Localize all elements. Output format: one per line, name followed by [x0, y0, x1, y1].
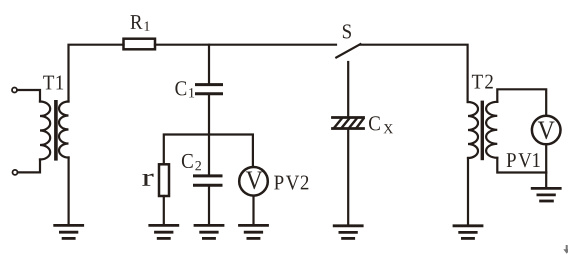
ground (below Cx) [334, 226, 362, 239]
wire: bus [164, 135, 253, 167]
wire: T1 primary bottom to bottom terminal [18, 160, 40, 173]
label S [343, 24, 351, 38]
ground (below r) [150, 225, 178, 238]
scroll arrow artifact [563, 245, 568, 254]
wire: R1 to switch S [155, 44, 336, 46]
wire: r to ground [163, 196, 165, 225]
capacitor C2 [195, 176, 222, 185]
voltmeter letter V (PV2) [246, 171, 263, 189]
transformer T1 core [54, 102, 58, 159]
transformer T2 secondary winding [486, 102, 497, 158]
wire: T1 secondary bottom to ground [67, 158, 69, 226]
label C2 [182, 154, 201, 170]
capacitor Cx plates [333, 118, 364, 129]
wire: switch S to T2 [360, 45, 467, 102]
label PV1 [507, 153, 540, 167]
label R1 [131, 15, 150, 31]
wire: PV2 to ground [252, 196, 254, 226]
transformer T2 primary winding [468, 102, 478, 158]
wire: T1 secondary top to top rail [69, 45, 124, 102]
capacitor C1 [197, 85, 222, 94]
wire: top rail junction down to C1 [208, 45, 210, 83]
label PV2 [274, 176, 308, 190]
wire: switch S to Cx [347, 62, 349, 116]
resistor R1 [124, 39, 156, 50]
label T1 [43, 76, 63, 90]
ground (below T1) [55, 225, 83, 238]
wire: T2 secondary bottom to PV1 ground node [497, 158, 546, 173]
ground (below T2) [454, 226, 482, 239]
wire: T2 primary bottom to ground [467, 158, 469, 226]
resistor r [159, 164, 169, 196]
label C1 [175, 81, 194, 97]
terminal (T1 primary bottom) [13, 170, 18, 175]
ground (below PV2) [240, 225, 268, 238]
ground (below C2) [195, 225, 223, 238]
label Cx [369, 116, 393, 133]
transformer T2 core [481, 102, 484, 158]
voltmeter letter V (PV1) [538, 122, 555, 140]
wire: Cx to ground [347, 130, 349, 226]
wire: C2 to ground [208, 185, 210, 225]
capacitor Cx hatching [335, 119, 364, 128]
wire: top terminal to T1 primary [17, 90, 40, 102]
label r [142, 174, 153, 186]
label T2 [472, 75, 493, 89]
wire: T2 secondary top to PV1 [497, 89, 546, 115]
transformer T1 secondary winding [59, 102, 69, 158]
voltmeter PV1 [532, 116, 561, 145]
wire: C1 to C2 through bus junction [208, 94, 210, 175]
wire: PV1 bottom to ground [545, 144, 547, 188]
switch S blade [336, 44, 360, 57]
transformer T1 primary winding [40, 102, 50, 160]
voltmeter PV2 [239, 167, 268, 196]
terminal (T1 primary top) [12, 88, 17, 93]
ground (below PV1) [532, 188, 560, 201]
